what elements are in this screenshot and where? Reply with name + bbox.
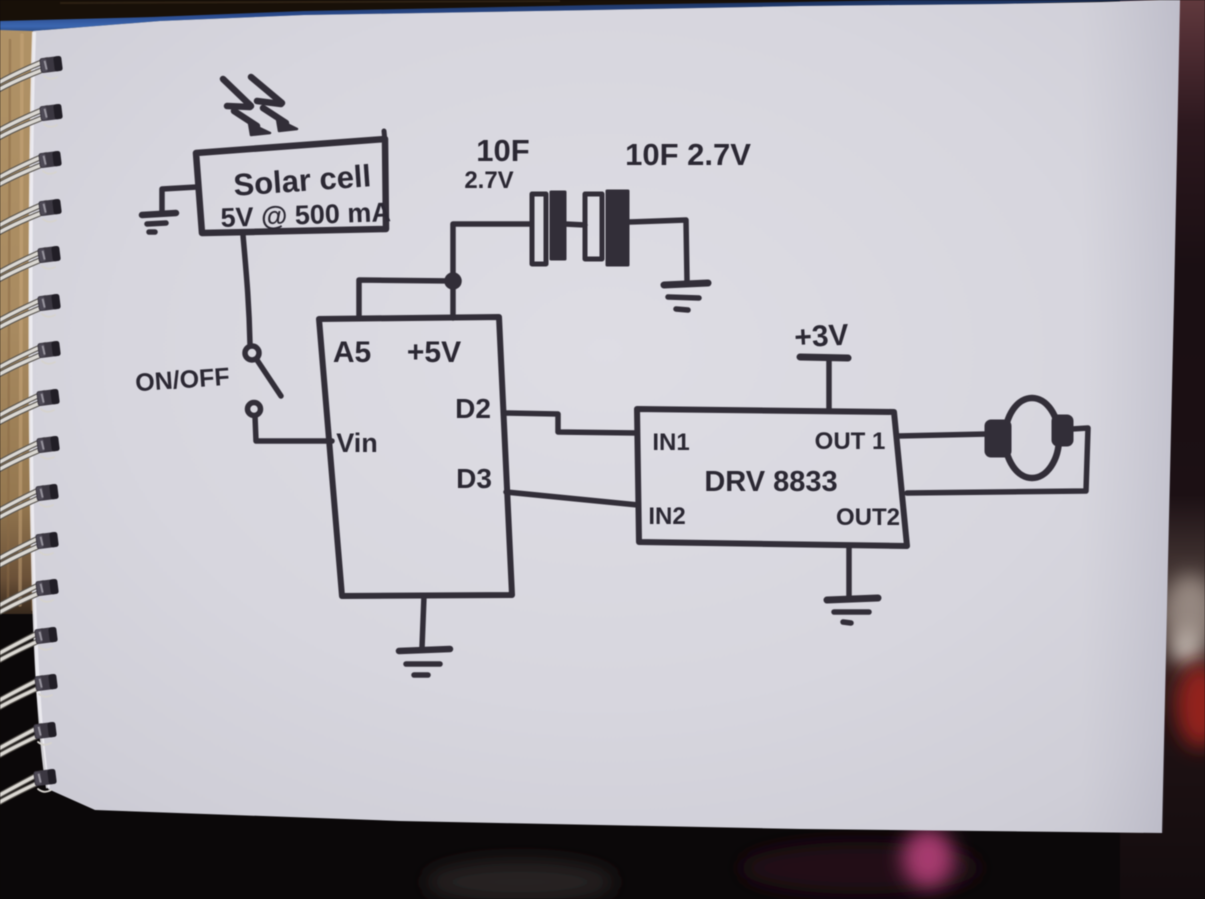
svg-text:Vin: Vin [336, 428, 378, 458]
svg-text:OUT 1: OUT 1 [815, 428, 886, 455]
svg-text:+5V: +5V [407, 336, 461, 369]
svg-text:DRV 8833: DRV 8833 [704, 466, 837, 498]
svg-text:D3: D3 [456, 463, 492, 494]
svg-text:10F 2.7V: 10F 2.7V [625, 137, 751, 172]
svg-text:10F: 10F [476, 133, 529, 168]
svg-text:OUT2: OUT2 [836, 504, 900, 531]
svg-text:IN1: IN1 [652, 429, 689, 456]
svg-text:2.7V: 2.7V [464, 167, 513, 194]
svg-text:5V @ 500 mA: 5V @ 500 mA [220, 197, 391, 233]
svg-text:IN2: IN2 [648, 503, 685, 530]
svg-text:+3V: +3V [794, 319, 850, 355]
svg-text:A5: A5 [333, 336, 371, 369]
svg-text:D2: D2 [455, 393, 491, 424]
